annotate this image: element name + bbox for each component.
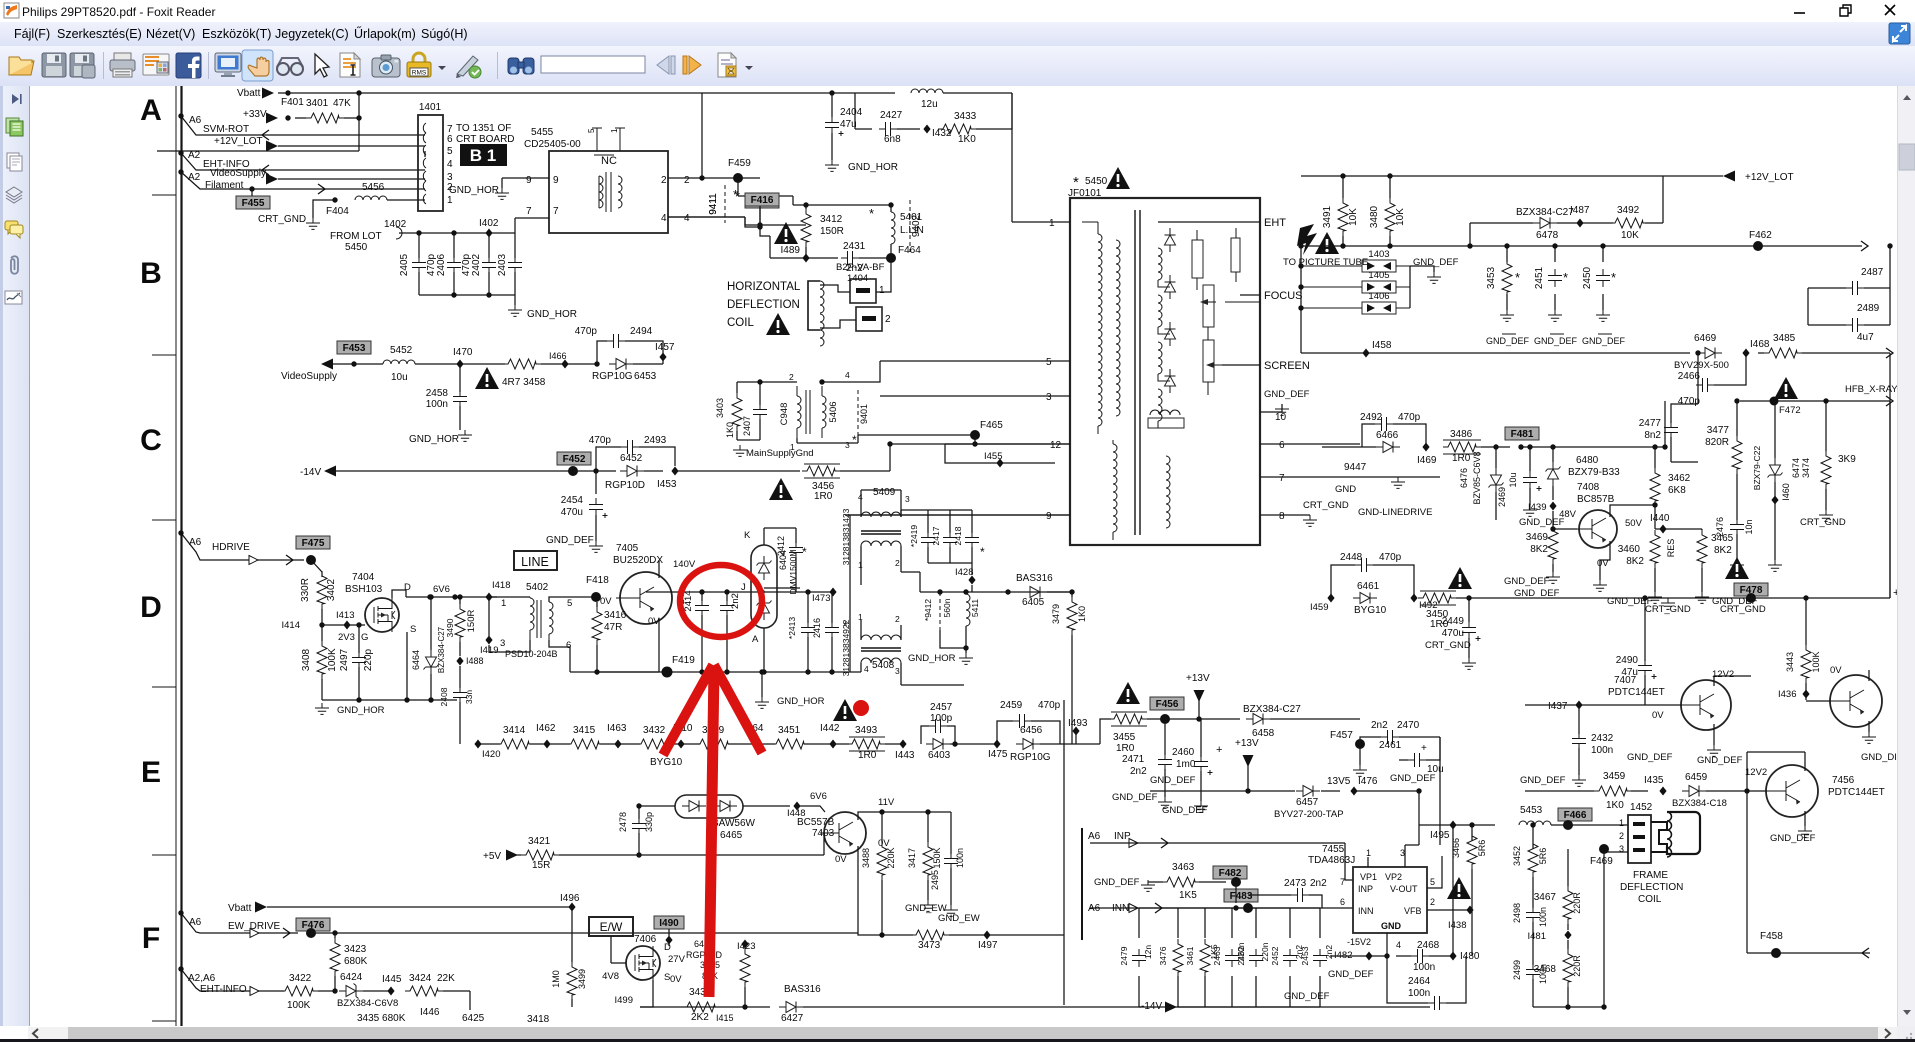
snapshot camera icon bbox=[372, 55, 400, 77]
wire bbox=[459, 666, 461, 688]
svg-text:3492: 3492 bbox=[1617, 205, 1640, 216]
wire bbox=[858, 812, 882, 820]
dashed 9402 bbox=[909, 200, 911, 252]
junction bbox=[486, 292, 491, 297]
svg-text:GND_DEF: GND_DEF bbox=[1486, 336, 1530, 346]
svg-text:*: * bbox=[980, 545, 985, 559]
svg-text:2418: 2418 bbox=[953, 526, 963, 545]
wire bbox=[971, 585, 973, 592]
frame deflection coil bbox=[1651, 822, 1667, 852]
svg-text:12n: 12n bbox=[1143, 945, 1153, 959]
wire emitter bbox=[1600, 541, 1610, 580]
wire bbox=[459, 702, 461, 744]
flag F416 bbox=[745, 193, 779, 206]
chevron bbox=[1161, 838, 1168, 848]
red annotation arrow bbox=[709, 668, 714, 997]
wire bbox=[1532, 922, 1534, 965]
wire bbox=[1075, 731, 1077, 744]
node I402 bbox=[485, 229, 492, 238]
svg-text:4R7 3458: 4R7 3458 bbox=[502, 377, 546, 388]
svg-text:*: * bbox=[1073, 174, 1079, 191]
junction bbox=[332, 988, 337, 993]
svg-text:A: A bbox=[752, 634, 759, 645]
svg-text:GND_DEF: GND_DEF bbox=[1627, 752, 1673, 763]
ground bbox=[1500, 310, 1514, 321]
junction bbox=[1298, 243, 1303, 248]
chevron bbox=[1861, 241, 1868, 251]
svg-text:DEFLECTION: DEFLECTION bbox=[727, 299, 800, 311]
wire bbox=[796, 438, 798, 443]
wire bbox=[1199, 881, 1226, 883]
wire bbox=[1506, 294, 1508, 310]
ground bbox=[1661, 598, 1675, 609]
svg-text:2412: 2412 bbox=[776, 536, 786, 556]
capacitor 2407 bbox=[753, 403, 767, 421]
row tick bbox=[152, 194, 176, 196]
junction bbox=[457, 594, 462, 599]
svg-text:2432: 2432 bbox=[1591, 733, 1614, 744]
svg-text:EHT: EHT bbox=[1264, 217, 1286, 229]
svg-text:I480: I480 bbox=[1460, 951, 1480, 962]
junction bbox=[805, 669, 810, 674]
node I443 bbox=[899, 740, 906, 749]
svg-text:3: 3 bbox=[1046, 392, 1052, 403]
VideoSupply wire bbox=[278, 178, 425, 180]
resistor 3456 bbox=[802, 466, 840, 476]
junction bbox=[1245, 788, 1250, 793]
wire bbox=[927, 812, 929, 842]
junction F452 bbox=[568, 466, 578, 476]
ground bbox=[1546, 572, 1560, 583]
node I419 bbox=[485, 636, 492, 645]
svg-text:BYV27-200-TAP: BYV27-200-TAP bbox=[1274, 809, 1344, 820]
svg-text:3412: 3412 bbox=[820, 214, 843, 225]
wire bbox=[764, 527, 796, 529]
svg-text:GND_DEF: GND_DEF bbox=[1284, 991, 1330, 1002]
wire bbox=[595, 515, 597, 541]
svg-text:A2: A2 bbox=[188, 150, 201, 161]
node I413 bbox=[343, 621, 350, 630]
wire bbox=[861, 489, 901, 491]
wire bbox=[1578, 748, 1580, 775]
connector 1404 bbox=[850, 279, 876, 303]
svg-text:220p: 220p bbox=[363, 648, 374, 671]
flyback secondary coil bbox=[1158, 389, 1162, 421]
junction bbox=[356, 622, 361, 627]
transistor 7456 PDTC144ET bbox=[1762, 765, 1818, 817]
wire bbox=[1429, 955, 1453, 957]
junction bbox=[452, 594, 457, 599]
svg-text:9: 9 bbox=[1046, 511, 1052, 522]
node I496 bbox=[568, 903, 575, 912]
wire bbox=[418, 272, 420, 295]
svg-text:GND_DEF: GND_DEF bbox=[1520, 775, 1566, 786]
capacitor 2479 bbox=[1132, 949, 1146, 967]
junction bbox=[636, 803, 641, 808]
junction bbox=[1695, 350, 1700, 355]
row tick bbox=[152, 854, 176, 856]
wire bbox=[1758, 352, 1764, 354]
svg-text:3453: 3453 bbox=[1486, 266, 1497, 289]
svg-text:1R0: 1R0 bbox=[858, 750, 877, 761]
svg-text:10u: 10u bbox=[391, 372, 408, 383]
wire bbox=[1204, 908, 1206, 938]
node I436 bbox=[1802, 690, 1809, 699]
hand tool (selected) bbox=[242, 50, 273, 81]
open arrow bbox=[250, 987, 259, 996]
wire bbox=[849, 515, 851, 672]
wire bbox=[1825, 489, 1827, 510]
svg-text:1: 1 bbox=[447, 195, 453, 206]
wire source down bbox=[406, 632, 408, 700]
resistor 3451 bbox=[771, 739, 809, 749]
junction bbox=[1416, 788, 1421, 793]
form icon bbox=[718, 53, 736, 77]
wire bbox=[459, 406, 461, 430]
wire bbox=[803, 1006, 900, 1008]
svg-text:9401: 9401 bbox=[859, 404, 869, 424]
wire bbox=[684, 1006, 719, 1008]
svg-text:CRT_GND: CRT_GND bbox=[258, 214, 306, 225]
svg-text:F455: F455 bbox=[242, 198, 265, 209]
wire bbox=[1177, 908, 1179, 938]
node I448 bbox=[793, 802, 800, 811]
wire gnd rail bbox=[322, 699, 457, 701]
wire bbox=[1468, 638, 1470, 658]
svg-text:+: + bbox=[1421, 743, 1427, 754]
svg-text:3490: 3490 bbox=[445, 618, 455, 637]
wire bbox=[1889, 401, 1891, 598]
junction bbox=[1550, 526, 1555, 531]
junction bbox=[178, 966, 183, 971]
wire bbox=[424, 151, 426, 157]
svg-text:F459: F459 bbox=[728, 158, 751, 169]
dashed 9411 bbox=[724, 185, 726, 223]
wire bbox=[1747, 952, 1870, 954]
wire bbox=[1746, 791, 1748, 953]
svg-text:3499: 3499 bbox=[577, 969, 587, 989]
wire bbox=[1260, 411, 1282, 413]
svg-text:7408: 7408 bbox=[1577, 482, 1600, 493]
find binoculars icon bbox=[508, 58, 534, 74]
resistor 3477 bbox=[1732, 436, 1742, 474]
svg-text:100n: 100n bbox=[1538, 907, 1548, 927]
svg-text:F452: F452 bbox=[563, 454, 586, 465]
svg-text:BZX384-C27: BZX384-C27 bbox=[1243, 704, 1301, 715]
wire bbox=[1040, 743, 1076, 745]
diode 6461 BYG10 bbox=[1353, 593, 1377, 604]
diode 6453 bbox=[609, 359, 633, 370]
node I476 bbox=[1350, 787, 1357, 796]
wire bbox=[675, 470, 800, 472]
wire bbox=[1222, 364, 1260, 366]
junction F462 bbox=[1753, 241, 1763, 251]
svg-text:2479: 2479 bbox=[1119, 946, 1129, 965]
junction bbox=[1530, 822, 1535, 827]
svg-text:1K5: 1K5 bbox=[1179, 890, 1197, 901]
flag F466 bbox=[1558, 808, 1592, 821]
scroll up button bbox=[1903, 95, 1911, 100]
wire bbox=[971, 510, 973, 533]
svg-text:7405: 7405 bbox=[616, 543, 639, 554]
wire bbox=[1804, 811, 1806, 826]
chevron bbox=[1886, 396, 1893, 406]
wire bbox=[1774, 401, 1776, 458]
svg-text:RES: RES bbox=[1666, 539, 1676, 558]
junction bbox=[1467, 243, 1472, 248]
fit-screen icon bbox=[215, 53, 241, 77]
svg-text:6457: 6457 bbox=[1296, 797, 1319, 808]
wire bbox=[1409, 266, 1411, 308]
wire bbox=[1240, 294, 1260, 296]
capacitor 2459 bbox=[1013, 714, 1031, 728]
resistor 3473 bbox=[911, 930, 949, 940]
svg-text:6427: 6427 bbox=[781, 1013, 804, 1024]
junction bbox=[356, 115, 361, 120]
svg-text:GND_DEF: GND_DEF bbox=[1697, 755, 1743, 766]
svg-text:10K: 10K bbox=[1348, 208, 1359, 226]
zener 6480 BZX79-B33 bbox=[1546, 462, 1561, 486]
wire bbox=[965, 592, 967, 594]
junction F476 bbox=[306, 928, 316, 938]
wire bbox=[262, 990, 284, 992]
wire bbox=[321, 625, 323, 641]
wire bbox=[1321, 790, 1340, 792]
transformer 5406 winding bbox=[822, 396, 826, 428]
svg-text:RMS: RMS bbox=[412, 70, 427, 77]
svg-text:F481: F481 bbox=[1511, 429, 1534, 440]
resistor 3461 bbox=[1200, 939, 1210, 977]
node I442 bbox=[829, 740, 836, 749]
node I497 bbox=[983, 931, 990, 940]
wire bbox=[549, 640, 570, 652]
resistor 3479 bbox=[1067, 597, 1077, 635]
svg-text:3K9: 3K9 bbox=[1838, 454, 1856, 465]
svg-text:FOCUS: FOCUS bbox=[1264, 290, 1303, 302]
wire bbox=[1864, 287, 1890, 289]
junction bbox=[888, 202, 893, 207]
capacitor 2498 bbox=[1526, 906, 1540, 924]
svg-text:2487: 2487 bbox=[1861, 267, 1884, 278]
capacitor 2431 bbox=[841, 251, 859, 265]
wire bbox=[890, 244, 892, 258]
svg-text:FRAME: FRAME bbox=[1633, 870, 1668, 881]
svg-text:3432: 3432 bbox=[643, 725, 666, 736]
wire bbox=[1671, 461, 1698, 463]
wire bbox=[1654, 447, 1656, 468]
scroll thumb bbox=[1899, 144, 1915, 170]
svg-text:2463: 2463 bbox=[1212, 946, 1222, 965]
svg-text:F472: F472 bbox=[1779, 405, 1801, 416]
save-as icon bbox=[70, 53, 95, 78]
EHT-INFO wire bbox=[181, 153, 425, 170]
node I438 bbox=[1466, 906, 1473, 915]
wire bbox=[541, 363, 597, 365]
junction bbox=[699, 589, 704, 594]
wire bbox=[1177, 976, 1179, 1007]
wire bbox=[759, 206, 761, 225]
capacitor 2405 bbox=[412, 256, 426, 274]
wire bbox=[880, 360, 1070, 362]
junction F458 bbox=[1771, 948, 1781, 958]
frame coil winding bbox=[1667, 812, 1672, 857]
svg-text:9447: 9447 bbox=[1344, 462, 1367, 473]
ground bbox=[495, 188, 509, 199]
svg-text:8K2: 8K2 bbox=[1530, 544, 1548, 555]
signal arrow bbox=[255, 902, 267, 913]
wire bbox=[795, 557, 797, 592]
wire long vertical bbox=[1063, 700, 1065, 1005]
wire bbox=[1076, 743, 1100, 745]
svg-text:5406: 5406 bbox=[828, 401, 839, 422]
wire bbox=[430, 674, 432, 700]
deflection coil symbol bbox=[808, 281, 820, 330]
svg-text:0V: 0V bbox=[835, 854, 847, 865]
svg-text:47R: 47R bbox=[604, 622, 622, 633]
wire bbox=[1404, 845, 1406, 867]
wire bbox=[358, 625, 360, 652]
junction bbox=[819, 379, 824, 384]
connector 1401 bbox=[418, 115, 443, 211]
svg-text:I469: I469 bbox=[1417, 455, 1437, 466]
resistor 3499 bbox=[567, 962, 577, 1000]
scroll down button bbox=[1903, 1010, 1911, 1015]
chevron bbox=[318, 184, 325, 194]
resistor 3415 bbox=[566, 739, 604, 749]
wire bbox=[1631, 790, 1648, 792]
wire bbox=[1551, 824, 1628, 826]
wire pin12 bbox=[890, 443, 1070, 445]
wire pin4 bbox=[668, 216, 745, 218]
capacitor 2451 bbox=[1548, 269, 1562, 287]
node I418 bbox=[485, 593, 492, 602]
ground bbox=[1353, 765, 1367, 776]
capacitor 2452 bbox=[1283, 949, 1297, 967]
signal arrow bbox=[266, 141, 278, 152]
node I473 bbox=[829, 588, 836, 597]
svg-text:1: 1 bbox=[610, 128, 619, 133]
diode 6456 RGP10G bbox=[1016, 739, 1040, 750]
svg-text:3459: 3459 bbox=[1603, 771, 1626, 782]
flyback small coil bbox=[1150, 410, 1180, 415]
wire bbox=[1138, 908, 1140, 938]
svg-text:MainSupplyGnd: MainSupplyGnd bbox=[746, 448, 814, 459]
wire drain bbox=[392, 590, 406, 598]
wire collector bbox=[658, 560, 660, 578]
wire bbox=[415, 363, 460, 365]
node I466 bbox=[561, 360, 568, 369]
wire J out bbox=[764, 587, 800, 589]
junction bbox=[319, 622, 324, 627]
wire bbox=[876, 263, 891, 292]
svg-text:470p: 470p bbox=[589, 435, 612, 446]
svg-text:F482: F482 bbox=[1219, 868, 1242, 879]
wire bbox=[443, 990, 470, 992]
wire emitter bbox=[658, 618, 660, 672]
svg-text:I468: I468 bbox=[1750, 339, 1770, 350]
svg-text:3416: 3416 bbox=[604, 610, 627, 621]
coil 5457 12u bbox=[911, 89, 943, 93]
svg-text:RGP10G: RGP10G bbox=[1010, 752, 1051, 763]
warning triangle bbox=[769, 478, 793, 500]
wire bbox=[901, 509, 972, 511]
ground bbox=[1548, 310, 1562, 321]
wire pin1 bbox=[1012, 221, 1070, 223]
svg-text:COIL: COIL bbox=[1638, 894, 1662, 905]
wire bbox=[640, 1006, 684, 1008]
svg-text:2449: 2449 bbox=[1442, 616, 1465, 627]
junction bbox=[1196, 716, 1201, 721]
coil 5411 bbox=[966, 594, 970, 626]
flyback primary winding bbox=[1098, 234, 1102, 426]
svg-text:2: 2 bbox=[895, 614, 900, 624]
svg-text:+33V: +33V bbox=[243, 109, 267, 120]
dashed 9401 bbox=[857, 390, 859, 440]
junction bbox=[829, 669, 834, 674]
svg-text:2471: 2471 bbox=[1122, 754, 1145, 765]
svg-text:3460: 3460 bbox=[1618, 544, 1641, 555]
spark gap 1406 bbox=[1362, 302, 1396, 314]
svg-text:5408: 5408 bbox=[872, 660, 895, 671]
junction bbox=[1340, 243, 1345, 248]
wire bbox=[399, 232, 515, 234]
junction bbox=[428, 697, 433, 702]
svg-text:47u: 47u bbox=[840, 119, 857, 130]
sidebar expand arrow bbox=[12, 94, 19, 104]
wire bbox=[1604, 851, 1628, 853]
junction bbox=[1466, 595, 1471, 600]
junction bbox=[805, 589, 810, 594]
wire bbox=[760, 225, 770, 236]
svg-text:2457: 2457 bbox=[930, 702, 953, 713]
capacitor 2n2 bbox=[720, 599, 734, 617]
node I439 bbox=[1549, 502, 1556, 511]
wire bbox=[596, 447, 621, 471]
svg-text:F458: F458 bbox=[1760, 931, 1783, 942]
svg-text:2: 2 bbox=[1619, 831, 1624, 841]
svg-text:EHT-INFO: EHT-INFO bbox=[200, 984, 247, 995]
flag F483 bbox=[1224, 889, 1258, 902]
wire bbox=[459, 642, 461, 656]
wire bbox=[1147, 718, 1240, 720]
svg-text:6n8: 6n8 bbox=[884, 134, 901, 145]
warning triangle bbox=[475, 367, 499, 389]
wire bbox=[1468, 598, 1470, 622]
mosfet 7404 BSH103 bbox=[365, 598, 399, 632]
wire bbox=[1645, 222, 1663, 224]
wire bbox=[488, 233, 490, 258]
wire bbox=[965, 648, 967, 653]
warning triangle bbox=[1447, 877, 1471, 899]
wire bbox=[949, 547, 951, 563]
svg-text:TDA4863J: TDA4863J bbox=[1308, 855, 1355, 866]
svg-text:6K8: 6K8 bbox=[1668, 485, 1686, 496]
INN wire bbox=[1090, 907, 1353, 909]
wire bbox=[797, 442, 858, 444]
signal arrow bbox=[1723, 171, 1735, 182]
svg-text:SCREEN: SCREEN bbox=[1264, 360, 1310, 372]
minimize bbox=[1794, 12, 1805, 14]
wire bbox=[947, 726, 955, 744]
svg-text:GND_HOR: GND_HOR bbox=[908, 653, 956, 664]
ground bbox=[1141, 880, 1155, 891]
capacitor 2492 bbox=[1375, 417, 1393, 431]
svg-text:0V: 0V bbox=[1830, 665, 1842, 676]
wire bbox=[1446, 956, 1466, 1003]
junction bbox=[724, 669, 729, 674]
svg-text:HDRIVE: HDRIVE bbox=[212, 542, 250, 553]
wire bbox=[1200, 771, 1202, 801]
